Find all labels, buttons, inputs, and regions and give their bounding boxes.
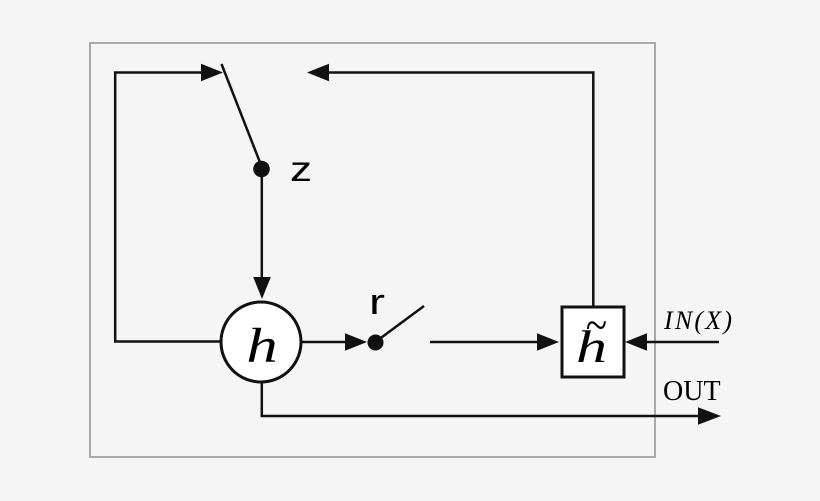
svg-text:z: z [290, 150, 312, 189]
svg-text:OUT: OUT [663, 376, 721, 407]
svg-text:r: r [369, 281, 385, 322]
svg-text:h: h [246, 319, 277, 373]
svg-text:IN(X): IN(X) [663, 306, 734, 335]
svg-text:~: ~ [585, 300, 606, 351]
